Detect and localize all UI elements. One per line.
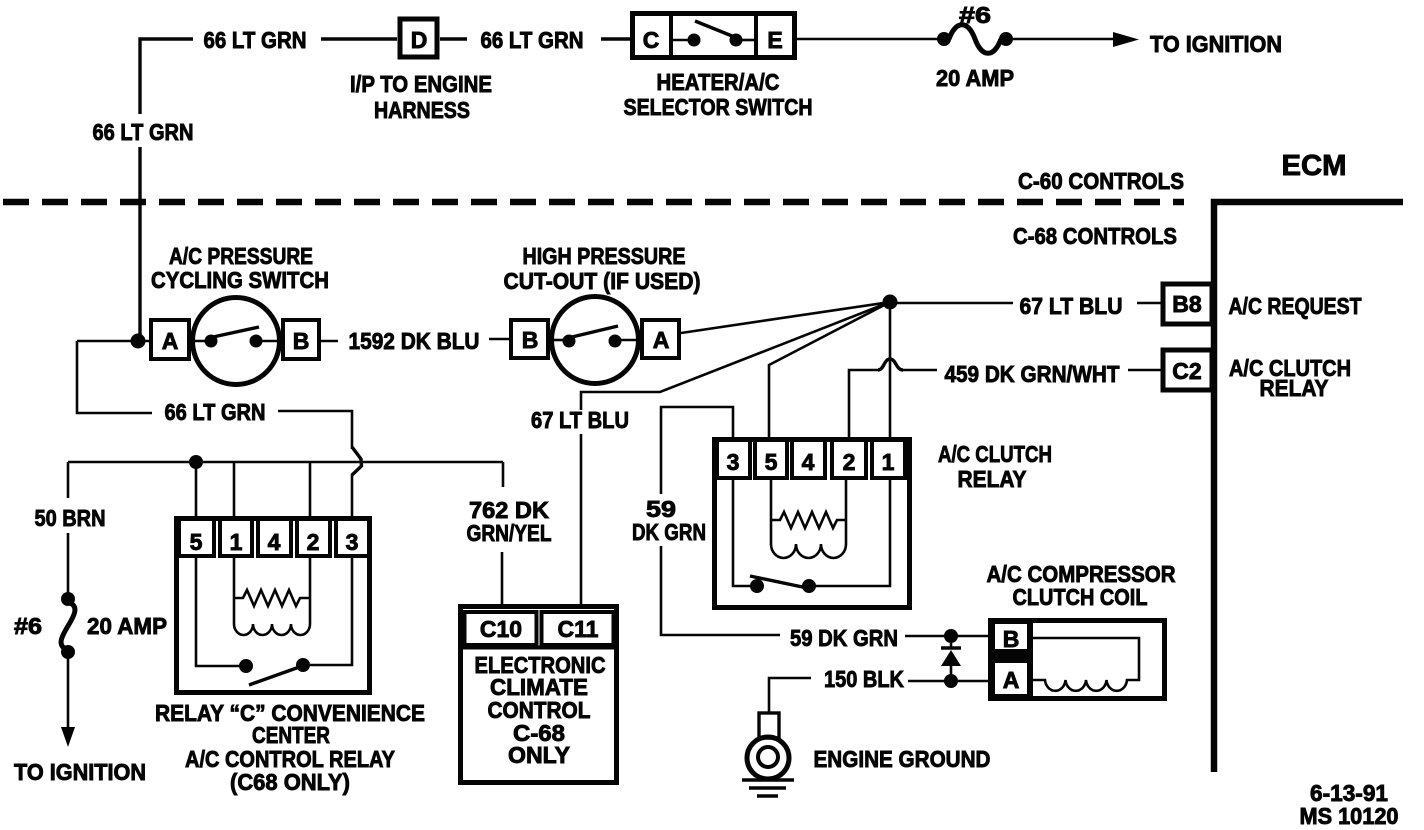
svg-text:I/P TO ENGINE: I/P TO ENGINE <box>350 71 492 97</box>
svg-text:66 LT GRN: 66 LT GRN <box>481 27 584 53</box>
wire arrow down to ignition <box>67 656 70 731</box>
svg-text:RELAY: RELAY <box>1260 375 1329 401</box>
svg-text:RELAY: RELAY <box>958 466 1027 492</box>
relay C convenience center K1 <box>177 519 370 693</box>
fuse #6 20 AMP (vertical) <box>61 592 75 659</box>
svg-text:C10: C10 <box>480 616 522 642</box>
svg-text:#6: #6 <box>14 613 42 639</box>
wire 762 DK GRN/YEL lower segment <box>501 552 504 607</box>
svg-text:TO IGNITION: TO IGNITION <box>1150 31 1282 57</box>
contact to pin E wire <box>741 39 756 42</box>
wire hop over bus at relay C pin 3 <box>352 447 362 475</box>
A/C compressor clutch coil L1 <box>989 619 1165 700</box>
node junction diode bottom on 150 BLK <box>944 674 958 688</box>
wire 66 LT GRN vertical feed down to junction <box>138 147 141 341</box>
node splice junction 67 LT BLU <box>883 295 898 310</box>
wire 66 LT GRN from connector D <box>440 37 467 40</box>
svg-text:B: B <box>1003 626 1020 652</box>
svg-text:3: 3 <box>727 449 740 475</box>
svg-text:HARNESS: HARNESS <box>374 97 470 123</box>
wire into pressure cycling switch pin A <box>77 340 151 343</box>
wire from pin E to fuse 6 <box>794 38 945 41</box>
svg-text:A: A <box>1003 667 1020 693</box>
wire bus drop to relay C pin 5 <box>195 462 198 517</box>
svg-text:(C68 ONLY): (C68 ONLY) <box>230 769 350 795</box>
svg-text:C-60 CONTROLS: C-60 CONTROLS <box>1018 168 1184 194</box>
contact dot left <box>688 34 701 47</box>
svg-text:B: B <box>522 327 539 353</box>
wire arrow to ignition <box>1013 38 1118 41</box>
wire from switch B to 1592 label <box>319 340 338 343</box>
svg-text:A: A <box>653 327 670 353</box>
relay K2 coil inductor bumps <box>771 544 846 558</box>
wire 66 LT GRN into heater/AC selector switch <box>601 37 633 40</box>
relay C switch contacts <box>196 557 240 666</box>
wire 67 LT BLU down to ECC pin C11 <box>580 434 583 607</box>
contact dot right <box>730 34 743 47</box>
svg-text:A/C PRESSURE: A/C PRESSURE <box>169 243 313 269</box>
svg-text:SELECTOR SWITCH: SELECTOR SWITCH <box>624 94 813 120</box>
svg-text:DK GRN: DK GRN <box>632 519 706 545</box>
wire 67 LT BLU junction to ECM B8 <box>890 302 1013 305</box>
svg-text:4: 4 <box>268 529 281 555</box>
svg-text:C-68 CONTROLS: C-68 CONTROLS <box>1013 223 1177 249</box>
svg-text:C2: C2 <box>1172 358 1201 384</box>
ECM pin C2 connector <box>1163 350 1212 390</box>
relay C coil leads <box>233 557 236 624</box>
A/C pressure cycling switch S2 <box>151 298 319 385</box>
svg-text:CYCLING SWITCH: CYCLING SWITCH <box>151 267 329 293</box>
clutch coil winding <box>1029 638 1139 691</box>
svg-text:CUT-OUT (IF USED): CUT-OUT (IF USED) <box>504 268 701 294</box>
A/C clutch relay K2 <box>715 440 910 608</box>
svg-text:66 LT GRN: 66 LT GRN <box>93 119 194 145</box>
heater/AC selector switch S1 <box>633 14 795 58</box>
wire 59 DK GRN into clutch coil pin B <box>905 635 995 638</box>
svg-text:59 DK GRN: 59 DK GRN <box>790 625 898 651</box>
wire 66 LT GRN top-left corner <box>140 39 193 114</box>
fuse #6 20 AMP (top) <box>937 25 1013 54</box>
svg-text:A: A <box>162 328 179 354</box>
svg-text:D: D <box>411 27 428 53</box>
svg-text:ECM: ECM <box>1282 150 1347 182</box>
wire 67 LT BLU to pin B8 <box>1137 302 1164 305</box>
svg-text:20 AMP: 20 AMP <box>87 613 167 639</box>
relay K2 coil resistor zigzag <box>771 512 846 528</box>
connector D (I/P to engine harness) <box>400 19 437 57</box>
wire 59 DK GRN from relay pin 3 around relay <box>661 407 733 494</box>
svg-text:TO IGNITION: TO IGNITION <box>14 759 146 785</box>
svg-text:E: E <box>767 27 782 53</box>
svg-text:67 LT BLU: 67 LT BLU <box>1020 293 1123 319</box>
wire 66 LT GRN to relay C pin 3 <box>278 411 352 449</box>
node junction at relay C pin 5 <box>189 455 203 469</box>
relay K2 coil leads <box>770 478 773 544</box>
switch arm <box>695 21 737 38</box>
wire 59 DK GRN down and right to clutch coil <box>661 546 780 635</box>
svg-text:A/C REQUEST: A/C REQUEST <box>1229 293 1362 319</box>
wire 50 BRN to fuse <box>67 533 70 597</box>
wire diagonal junction to A/C clutch relay pin 5 <box>769 302 890 439</box>
wire diagonal junction to 67 LT BLU drop (ECC C11) <box>581 302 890 410</box>
wire 459 DK GRN/WHT to pin C2 <box>1128 369 1164 372</box>
wire 762 DK GRN/YEL from bus to ECC C10 <box>502 462 505 487</box>
wire 1592 DK BLU to high pressure cut-out pin B <box>489 338 513 341</box>
svg-text:B8: B8 <box>1172 291 1202 317</box>
wire 50 BRN bus horizontal <box>68 461 503 464</box>
diode D1 clutch coil suppression <box>941 636 961 681</box>
svg-text:1: 1 <box>230 529 243 555</box>
wire 66 LT GRN to connector D <box>321 37 397 40</box>
svg-text:HEATER/A/C: HEATER/A/C <box>657 69 780 95</box>
high pressure cut-out switch S3 <box>511 297 679 384</box>
wire 150 BLK into clutch coil pin A <box>908 680 995 683</box>
relay C coil resistor zigzag <box>234 590 310 606</box>
svg-text:GRN/YEL: GRN/YEL <box>467 520 552 546</box>
relay C coil inductor bumps <box>234 624 310 635</box>
svg-text:C11: C11 <box>558 616 599 642</box>
svg-text:2: 2 <box>843 449 856 475</box>
node junction 66 LT GRN at switch A <box>131 334 146 349</box>
dashed divider line C-60 / C-68 <box>3 199 1184 206</box>
svg-text:CLUTCH COIL: CLUTCH COIL <box>1013 584 1148 610</box>
svg-text:CENTER: CENTER <box>252 722 330 748</box>
svg-text:5: 5 <box>765 449 778 475</box>
svg-text:66 LT GRN: 66 LT GRN <box>204 27 307 53</box>
svg-text:#6: #6 <box>959 2 991 28</box>
wire 459 DK GRN/WHT from relay pin 2 with hop <box>849 370 878 439</box>
svg-text:ONLY: ONLY <box>508 742 570 768</box>
relay K2 switch contacts <box>733 478 751 586</box>
svg-text:459 DK GRN/WHT: 459 DK GRN/WHT <box>945 361 1120 387</box>
pin C to contact wire <box>671 39 689 42</box>
svg-text:ENGINE GROUND: ENGINE GROUND <box>814 746 991 772</box>
svg-text:50 BRN: 50 BRN <box>35 505 106 531</box>
node junction diode top on 59 DK GRN <box>944 629 958 643</box>
engine ground G1 symbol <box>742 713 794 796</box>
svg-text:1592 DK BLU: 1592 DK BLU <box>349 328 480 354</box>
wire bus drop to relay C pin 2 <box>309 462 312 517</box>
svg-text:3: 3 <box>346 529 359 555</box>
svg-text:MS 10120: MS 10120 <box>1300 803 1399 829</box>
svg-text:66 LT GRN: 66 LT GRN <box>165 399 266 425</box>
wire 50 BRN down leg <box>67 462 70 498</box>
wire bus drop to relay C pin 1 <box>233 462 236 517</box>
svg-text:B: B <box>293 328 310 354</box>
svg-text:67 LT BLU: 67 LT BLU <box>531 407 629 433</box>
svg-text:150 BLK: 150 BLK <box>824 666 904 692</box>
svg-text:1: 1 <box>882 449 895 475</box>
svg-text:HIGH PRESSURE: HIGH PRESSURE <box>523 243 686 269</box>
svg-text:A/C CLUTCH: A/C CLUTCH <box>938 441 1052 467</box>
wire junction down to A/C clutch relay pin 1 <box>889 302 892 439</box>
wire from cycling switch A down-left leg <box>77 341 152 413</box>
svg-text:2: 2 <box>307 529 320 555</box>
wire 150 BLK to engine ground <box>769 678 811 713</box>
svg-text:C: C <box>643 27 660 53</box>
svg-text:20 AMP: 20 AMP <box>936 65 1014 91</box>
ECM module U1 outline <box>1214 202 1403 772</box>
svg-text:5: 5 <box>190 529 203 555</box>
ECM pin B8 connector <box>1163 284 1212 324</box>
electronic climate control module U2 <box>459 607 618 783</box>
svg-text:4: 4 <box>802 449 815 475</box>
wire diagonal from cut-out pin A to junction <box>681 302 890 333</box>
